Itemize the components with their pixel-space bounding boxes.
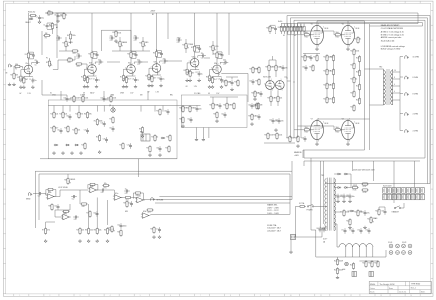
capacitor C h4 — [365, 228, 370, 234]
ground — [56, 19, 59, 22]
svg-text:C60: C60 — [257, 92, 260, 94]
capacitor C p1 — [316, 227, 321, 233]
diode D b1 — [350, 210, 354, 212]
svg-text:0: 0 — [394, 91, 395, 93]
svg-text:9: 9 — [260, 295, 261, 297]
resistor R p1 — [375, 208, 380, 216]
svg-text:C55: C55 — [279, 66, 282, 68]
capacitor C fx13 — [54, 204, 59, 210]
svg-text:0V: 0V — [19, 93, 22, 95]
svg-text:C46: C46 — [93, 212, 96, 214]
svg-text:C59: C59 — [249, 80, 252, 82]
label node V3a — [186, 86, 198, 88]
ground — [44, 239, 47, 242]
capacitor C fxin — [37, 192, 43, 197]
wire to PI — [221, 74, 248, 103]
svg-text:F1 T2A: F1 T2A — [299, 202, 305, 205]
ground — [202, 138, 205, 141]
ground — [79, 151, 82, 154]
capacitor C sw4 — [103, 137, 108, 143]
svg-text:1M: 1M — [15, 75, 18, 77]
svg-text:R64: R64 — [223, 104, 226, 106]
svg-text:22n: 22n — [77, 53, 80, 55]
note text block — [381, 24, 405, 50]
svg-text:C34: C34 — [164, 110, 167, 112]
resistor R2 1M — [10, 72, 18, 80]
resistor R grid V2b — [145, 73, 153, 81]
svg-text:BASS: BASS — [122, 41, 128, 44]
svg-text:C74: C74 — [365, 229, 368, 231]
resistor R pi2 — [248, 113, 256, 121]
svg-text:B GND 2: 3.15 voltage 0.25: B GND 2: 3.15 voltage 0.25 — [381, 33, 404, 36]
resistor R c2 — [75, 63, 83, 68]
svg-text:-: - — [115, 196, 116, 198]
resistor R r1 — [351, 185, 359, 191]
svg-text:R32: R32 — [116, 42, 119, 44]
resistor R cathode V3a — [187, 70, 195, 78]
svg-text:R41: R41 — [107, 97, 110, 99]
svg-text:V6: V6 — [342, 23, 344, 25]
svg-text:10k: 10k — [48, 10, 51, 12]
capacitor C coupling V2b — [160, 58, 168, 65]
svg-text:1u: 1u — [35, 80, 37, 82]
svg-text:R46: R46 — [64, 127, 67, 129]
wire screen bus — [281, 23, 304, 25]
svg-text:EL34: EL34 — [325, 123, 329, 125]
diode D3 — [337, 187, 341, 189]
resistor R pi plate2 — [272, 64, 281, 72]
svg-text:R83: R83 — [108, 227, 111, 229]
resistor R sw5 — [64, 125, 69, 133]
wire rail drop — [130, 13, 132, 51]
svg-text:C19: C19 — [218, 54, 221, 56]
resistor R h1 — [334, 258, 344, 266]
svg-text:+: + — [137, 201, 138, 203]
label psu feed — [294, 151, 303, 157]
resistor R screen2 — [281, 24, 286, 35]
resistor R re1 — [151, 134, 158, 142]
wire pi tail — [271, 90, 278, 106]
svg-text:C69: C69 — [316, 228, 319, 230]
ground — [363, 226, 366, 229]
wire fx2 — [54, 190, 89, 197]
svg-text:R75: R75 — [136, 195, 139, 197]
svg-text:R100 2k2: R100 2k2 — [28, 12, 35, 14]
resistor R cathode V2a — [123, 76, 131, 84]
svg-text:Zeichn.-Nr.: Zeichn.-Nr. — [399, 291, 407, 294]
wire plate of V2b — [156, 57, 158, 63]
wire plate feed V1b — [91, 50, 93, 52]
svg-text:S2: S2 — [90, 92, 92, 94]
wire plate pair V2b — [157, 51, 162, 58]
wire cathode V8 — [347, 139, 349, 142]
ground — [315, 47, 318, 50]
mains voltage table — [267, 203, 279, 215]
svg-text:R69: R69 — [64, 179, 67, 181]
svg-text:R86: R86 — [48, 205, 51, 207]
ground — [198, 79, 201, 82]
resistor R grid V2a — [120, 74, 128, 82]
potentiometer VOLUME — [209, 41, 218, 55]
capacitor bank C20-C37 — [383, 186, 425, 200]
svg-text:R68: R68 — [248, 115, 251, 117]
capacitor C fx15 — [128, 201, 133, 207]
wire grid feed — [297, 23, 299, 138]
capacitor C p2 — [320, 227, 325, 233]
capacitor C c1 — [76, 53, 82, 60]
pentode V5 EL34 — [308, 23, 329, 47]
svg-text:C21: C21 — [223, 64, 226, 66]
resistor R fb4 — [62, 210, 70, 215]
svg-text:3: 3 — [219, 74, 220, 76]
svg-text:16: 16 — [394, 70, 396, 72]
wire FX rail — [35, 159, 292, 228]
ground — [152, 235, 155, 238]
resistor R re4 — [165, 145, 170, 153]
svg-text:TYPE E320: TYPE E320 — [411, 283, 420, 285]
ground — [52, 151, 55, 154]
resistor R fx4 — [94, 227, 102, 235]
resistor R bias feed1 — [264, 132, 273, 140]
wire B+ to PSU — [304, 150, 425, 166]
wire heater bus — [316, 230, 386, 257]
svg-text:2k7: 2k7 — [153, 78, 156, 80]
svg-text:EL34: EL34 — [356, 28, 360, 30]
wire plate feed V2a — [130, 50, 132, 52]
capacitor C cathode V1b — [93, 77, 100, 83]
svg-text:R96: R96 — [294, 137, 297, 139]
svg-text:1.5V: 1.5V — [216, 93, 220, 95]
wire cathode V6 — [347, 44, 349, 47]
wire mid bus2 — [210, 97, 238, 103]
svg-text:47k: 47k — [89, 114, 92, 116]
wire fb1 — [46, 190, 56, 197]
svg-text:16 OHM: 16 OHM — [413, 57, 420, 59]
capacitor C fx3 — [100, 189, 106, 194]
svg-text:1M: 1M — [260, 105, 263, 107]
svg-text:R76: R76 — [64, 213, 67, 215]
capacitor C m3 — [216, 103, 221, 109]
svg-text:C26: C26 — [177, 42, 180, 44]
svg-text:LOUDNESS controls voltage: LOUDNESS controls voltage — [381, 45, 405, 48]
resistor R screen7 — [297, 24, 302, 35]
svg-text:R73: R73 — [90, 186, 93, 188]
svg-text:V2b: V2b — [154, 62, 157, 64]
svg-text:4k7: 4k7 — [55, 128, 58, 130]
wire grid feed — [286, 16, 288, 138]
svg-text:R113: R113 — [305, 132, 309, 134]
ground — [95, 85, 98, 88]
svg-text:4: 4 — [110, 295, 111, 297]
svg-text:-: - — [143, 214, 144, 216]
svg-text:4: 4 — [394, 84, 395, 86]
svg-text:C10: C10 — [132, 53, 135, 55]
capacitor C e2 — [228, 80, 233, 86]
resistor R fx10 — [150, 226, 155, 234]
svg-text:470k: 470k — [117, 32, 121, 34]
wire — [47, 23, 53, 34]
wire — [270, 25, 276, 34]
resistor R grid V8 — [334, 127, 342, 133]
svg-text:R115: R115 — [354, 38, 358, 40]
svg-text:B1: B1 — [152, 14, 154, 16]
triode V2a — [125, 63, 135, 76]
svg-text:REL: REL — [170, 94, 173, 96]
svg-text:R37: R37 — [222, 81, 225, 83]
svg-text:C64: C64 — [334, 195, 337, 197]
svg-text:C52: C52 — [72, 198, 75, 200]
resistor R pi1 — [255, 102, 263, 110]
label net A1 — [56, 26, 58, 29]
svg-text:2k7: 2k7 — [25, 79, 28, 81]
svg-text:R119: R119 — [323, 56, 327, 58]
capacitor C k2 — [307, 55, 312, 61]
svg-text:R112: R112 — [336, 37, 340, 39]
svg-text:C9: C9 — [98, 64, 100, 66]
svg-text:470p: 470p — [177, 37, 181, 39]
svg-text:C53: C53 — [54, 205, 57, 207]
resistor R lamp — [350, 262, 355, 270]
svg-text:BIAS: BIAS — [373, 217, 378, 220]
svg-text:R15: R15 — [127, 53, 130, 55]
resistor R fx9 — [80, 203, 88, 208]
svg-text:10k: 10k — [99, 230, 102, 232]
wire rail drop — [194, 13, 196, 44]
resistor R bias col — [350, 104, 355, 112]
svg-text:R26: R26 — [206, 77, 209, 79]
svg-text:R70: R70 — [104, 187, 107, 189]
svg-text:R77: R77 — [148, 212, 151, 214]
fuse F1 — [298, 202, 306, 207]
svg-text:4 OHM: 4 OHM — [413, 114, 419, 116]
svg-text:R120: R120 — [330, 56, 334, 58]
svg-text:R127: R127 — [350, 50, 354, 52]
resistor R grid V1b — [81, 74, 89, 82]
svg-text:-: - — [48, 195, 49, 197]
resistor R bias col — [356, 69, 361, 77]
capacitor C ab2 — [100, 96, 108, 102]
svg-text:A GND 2: 3.15 voltage 0.15: A GND 2: 3.15 voltage 0.15 — [381, 31, 404, 34]
svg-text:C16: C16 — [196, 47, 199, 49]
svg-text:R57: R57 — [146, 147, 149, 149]
svg-text:IN: IN — [6, 73, 8, 75]
resistor R pi tail2 — [274, 95, 282, 103]
ground — [87, 239, 90, 242]
capacitor C h3 — [357, 228, 362, 234]
wire fb3 — [133, 193, 143, 200]
svg-text:R19: R19 — [148, 77, 151, 79]
wire plate feed V3a — [194, 44, 196, 46]
svg-text:C13: C13 — [158, 52, 161, 54]
resistor R grid V3a — [184, 68, 192, 76]
svg-text:C14: C14 — [157, 77, 160, 79]
capacitor C sw5 — [84, 128, 89, 134]
wire mains in — [296, 206, 328, 237]
wire — [55, 12, 64, 14]
svg-text:+: + — [63, 218, 64, 220]
ground — [296, 144, 299, 147]
resistor R plate V3a — [191, 45, 200, 53]
resistor R screen1 — [278, 24, 283, 35]
wire plate pair V2a — [131, 52, 136, 59]
wire rail drop — [27, 13, 29, 51]
svg-text:C22: C22 — [77, 58, 80, 60]
resistor R b1 — [340, 209, 349, 217]
svg-text:3: 3 — [282, 90, 283, 92]
ground — [274, 128, 277, 131]
wire bias bus — [264, 142, 295, 144]
svg-text:22k: 22k — [90, 230, 93, 232]
ground — [158, 153, 161, 156]
resistor R bias col — [350, 90, 355, 98]
svg-text:100n: 100n — [123, 226, 127, 228]
svg-text:R149: R149 — [374, 262, 378, 264]
wire plate feed V3b — [216, 50, 218, 52]
wire — [59, 50, 72, 52]
svg-text:68k: 68k — [15, 64, 18, 66]
svg-text:Datum: Datum — [370, 287, 375, 290]
svg-text:R72: R72 — [48, 191, 51, 193]
svg-text:R84: R84 — [117, 231, 120, 233]
svg-text:R129: R129 — [350, 64, 354, 66]
resistor R m1 — [179, 105, 187, 113]
svg-text:C39: C39 — [193, 107, 196, 109]
resistor R lc2 — [255, 66, 260, 74]
capacitor C plate V2b — [158, 51, 163, 57]
capacitor C bf5 — [301, 136, 306, 142]
svg-text:R89: R89 — [265, 66, 268, 68]
resistor R h5 — [374, 260, 379, 268]
svg-text:1: 1 — [19, 295, 20, 297]
resistor R e3 — [234, 79, 239, 87]
relay RE1 — [140, 132, 150, 141]
potentiometer P fx2 — [108, 225, 114, 233]
wire grid feed — [293, 20, 295, 138]
capacitor C cathode V2b — [157, 76, 164, 82]
capacitor C plate V1a — [30, 53, 35, 59]
svg-text:R9: R9 — [25, 54, 27, 56]
svg-text:1u: 1u — [137, 80, 139, 82]
potentiometer P pre1 — [46, 58, 52, 68]
svg-text:ANODE current per tube: ANODE current per tube — [381, 36, 402, 39]
potentiometer BASS — [116, 37, 127, 51]
label node V1a — [19, 93, 31, 95]
svg-text:R148: R148 — [368, 262, 372, 264]
wire box stubs — [54, 106, 163, 112]
wire heater drops — [346, 247, 373, 257]
wire fx out bus1 — [143, 197, 292, 200]
svg-text:C57: C57 — [275, 119, 278, 121]
box channel switching — [48, 100, 177, 159]
capacitor C h2 — [349, 228, 354, 234]
svg-text:3: 3 — [94, 74, 95, 76]
resistor R sw9 — [84, 111, 92, 119]
resistor R100 — [28, 12, 37, 20]
resistor R fx12 — [48, 203, 53, 211]
label fx — [58, 187, 129, 213]
resistor R k1 — [301, 54, 311, 62]
svg-text:The Straight 100W: The Straight 100W — [380, 283, 395, 286]
ground — [12, 83, 15, 86]
op-amp U2b — [135, 195, 144, 203]
svg-text:1n: 1n — [57, 35, 59, 37]
svg-text:S1: S1 — [50, 92, 52, 94]
capacitor C lc2 — [257, 91, 262, 97]
label heater — [323, 239, 327, 244]
resistor R screen6 — [294, 24, 299, 35]
svg-text:R6: R6 — [60, 14, 62, 16]
svg-text:R138: R138 — [363, 192, 367, 194]
ground — [125, 85, 128, 88]
diode D4 — [344, 187, 348, 189]
svg-text:1.5V: 1.5V — [194, 86, 198, 88]
wire cathode V3b — [213, 74, 222, 77]
capacitor C pi out1 — [279, 65, 287, 71]
svg-text:R140: R140 — [354, 211, 358, 213]
svg-text:TR2: TR2 — [379, 66, 382, 68]
wire fb2 — [88, 185, 98, 191]
svg-text:470R: 470R — [353, 185, 358, 187]
svg-text:C11: C11 — [132, 78, 135, 80]
capacitor C lc1 — [249, 79, 254, 85]
capacitor C coupling V1b — [95, 59, 103, 66]
ground — [348, 226, 351, 229]
capacitor C sw1 — [66, 114, 71, 120]
svg-text:1k: 1k — [355, 79, 357, 81]
svg-text:1u: 1u — [98, 80, 100, 82]
capacitor C fx0 — [124, 188, 130, 195]
capacitor C fx11 — [156, 227, 161, 233]
resistor R grid V5 — [303, 32, 311, 38]
capacitor C b1 — [361, 210, 369, 216]
ground — [22, 85, 25, 88]
resistor R bias col — [323, 68, 331, 76]
svg-text:8: 8 — [394, 77, 395, 79]
wire plate feed V1a — [27, 51, 29, 53]
svg-text:47n: 47n — [134, 35, 137, 37]
svg-text:EL34: EL34 — [325, 28, 329, 30]
resistor R fx1 — [42, 227, 50, 235]
svg-text:R101: R101 — [253, 104, 257, 106]
resistor R screen8 — [300, 24, 305, 35]
svg-text:+460V: +460V — [294, 155, 300, 157]
ground — [38, 20, 41, 23]
svg-text:R34: R34 — [139, 42, 142, 44]
capacitor C re2 — [156, 146, 161, 152]
svg-text:R130: R130 — [356, 71, 360, 73]
wire plate of V1a — [27, 59, 29, 65]
wire grid V2b — [149, 68, 152, 73]
svg-text:C58: C58 — [301, 137, 304, 139]
transistor Q1 — [109, 105, 115, 112]
svg-text:C6: C6 — [35, 64, 37, 66]
svg-text:5k6: 5k6 — [336, 127, 339, 129]
wire plate pair V1a — [28, 52, 33, 59]
resistor R m2 — [186, 105, 194, 113]
resistor R m4 — [209, 102, 218, 110]
svg-text:100-120V : 4A T: 100-120V : 4A T — [267, 227, 281, 230]
capacitor C plate V2a — [132, 52, 137, 58]
title block — [369, 282, 431, 294]
svg-text:R38: R38 — [234, 81, 237, 83]
wire plate of V3a — [194, 52, 196, 58]
svg-text:22n: 22n — [223, 60, 226, 62]
svg-text:100R: 100R — [339, 261, 344, 263]
diode D1 — [337, 173, 341, 175]
svg-text:2k7: 2k7 — [128, 79, 131, 81]
ground — [315, 142, 318, 145]
svg-text:22k: 22k — [81, 230, 84, 232]
